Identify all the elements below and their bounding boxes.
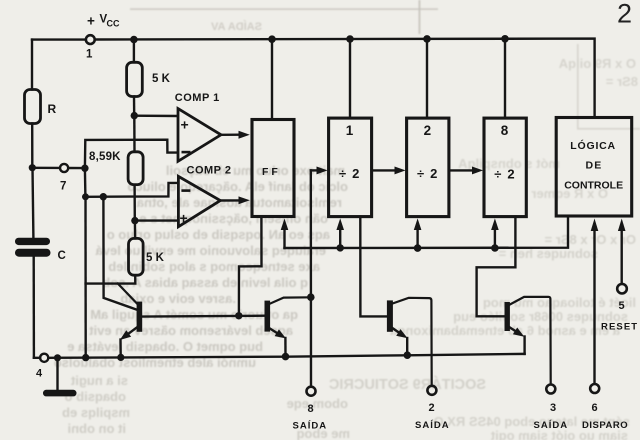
svg-text:6: 6 [592,402,598,414]
node D (comp2 ref) [131,217,138,224]
svg-text:olcic ob lanif elA .oãçareqo e: olcic ob lanif elA .oãçareqo e oliuco [127,179,348,194]
node Vcc junction [130,36,138,44]
resistor R [25,90,41,124]
label 2 [424,123,432,138]
svg-text:+: + [180,210,188,226]
svg-text:2: 2 [429,402,435,414]
terminal 1 [86,35,95,44]
label pin 6 [592,402,598,414]
wire comp1 output [221,131,250,139]
wire FF output to base line [239,217,262,316]
svg-text:CC: CC [107,19,120,29]
svg-text:it on obni: it on obni [68,421,126,436]
label 5K lower [146,252,165,264]
label FF [262,166,281,178]
wire disparo [591,219,599,384]
wire ground rail [34,354,525,358]
node A (timing node) [81,165,88,172]
svg-text:LÓGICA: LÓGICA [570,139,616,152]
wire node A down [84,168,87,196]
transistor Q2 [265,297,311,356]
label LOGICA [570,139,616,152]
label pin 3 [550,402,556,414]
label R [48,102,57,116]
wire node to terminal 7 [32,167,60,169]
node R/C junction [29,164,36,171]
wire block1 top [349,39,351,118]
svg-text:CONTROLE: CONTROLE [564,180,623,192]
svg-text:7: 7 [60,181,66,193]
op-amp COMP2 [178,176,220,226]
ground [43,358,77,397]
label C [58,250,66,262]
label pin 4 [36,368,43,380]
svg-text:2: 2 [617,0,632,29]
svg-text:FF: FF [262,166,281,178]
svg-text:8: 8 [501,123,509,138]
svg-text:SAÍDA AV: SAÍDA AV [210,20,262,33]
wire chain arrow block1 to block2 [372,167,406,175]
svg-text:O x R9 oilqA: O x R9 oilqA [558,56,636,71]
label SAIDA 2 [415,420,450,431]
svg-text:buq oqmet O .obaqsib levátsa e: buq oqmet O .obaqsib levátsa e [67,339,263,354]
wire node D to 5K lower [134,221,137,239]
svg-text:4: 4 [36,368,43,380]
wire block8 output to Q4 base [477,217,516,317]
svg-text:aqseb levársenom oãsrev an evi: aqseb levársenom oãsrev an evit [89,323,293,338]
svg-text:RESET: RESET [601,322,638,333]
wire top rail [32,39,595,118]
label pin 7 [60,181,66,193]
wire reset [618,219,626,284]
flip-flop FF [252,120,294,217]
node Q2 collector to output 8 [307,293,315,301]
logic block U1 [556,118,632,217]
divider block 8 [484,118,526,217]
divider block 1 [329,118,372,217]
svg-text:SAÍDA: SAÍDA [534,420,569,431]
wire block8 top [504,39,506,118]
label RESET [601,322,638,333]
svg-text:SOCITÁR9 SOTIUCRIC: SOCITÁR9 SOTIUCRIC [328,376,486,393]
label comp1 minus [182,151,191,154]
wire chain arrow block2 to block8 [449,167,483,175]
svg-text:÷2: ÷2 [339,166,365,181]
node E (lower timing tap) [82,193,89,200]
node FF to base line [235,312,242,319]
node Q2 emitter tap [282,353,290,361]
svg-text:R: R [48,102,57,116]
label comp2 minus [181,189,190,192]
node block1 top [346,35,354,43]
svg-text:mspilqs eb: mspilqs eb [62,405,130,420]
label 8 [501,123,509,138]
wire comp2 output [220,196,250,204]
svg-text:+: + [181,117,189,133]
label comp1 plus [181,117,189,133]
wire node E to ground rail [84,197,87,358]
wire FF top [271,39,273,119]
label SAIDA 3 [534,420,569,431]
terminal 4 [40,354,48,362]
wire Vcc to R [31,40,33,90]
svg-text:si a nugit: si a nugit [70,373,128,388]
wire block1 output to Q3 base [360,217,387,317]
svg-text:5 K: 5 K [152,73,171,85]
svg-text:COMP 1: COMP 1 [175,92,220,104]
wire chain arrow into block1 [311,167,328,175]
wire terminal 7 to node A [68,167,85,170]
label +Vcc [87,14,120,29]
svg-text:obom eqe: obom eqe [287,396,348,411]
svg-text:5: 5 [619,300,625,312]
node Q3 emitter tap [404,351,412,359]
label divide-by-2 (8) [494,166,520,181]
resistor 5K upper [127,62,143,96]
terminal 7 [60,164,68,172]
wire 5K lower to divider foot [86,275,136,283]
op-amp COMP1 [178,109,221,162]
wire C to ground rail [33,257,36,358]
svg-text:DISPARO: DISPARO [582,420,628,431]
node B (comp1 ref) [131,112,138,119]
wire block2 top [426,39,428,118]
svg-text:DE: DE [586,160,603,172]
label pin 2 [429,402,435,414]
wire FF reset riser [281,219,289,249]
label DISPARO [582,420,628,431]
svg-text:2: 2 [424,123,432,138]
svg-text:8,59K: 8,59K [89,151,121,163]
svg-text:5 K: 5 K [146,252,165,264]
wire node to capacitor C [31,168,34,238]
svg-text:1: 1 [346,123,354,138]
label COMP 1 [175,92,220,104]
node Q1 emitter tap [117,354,124,361]
label pin 5 [619,300,625,312]
node block8 top [501,35,509,43]
wire node D to comp2 plus [135,219,178,221]
label SAIDA 8 [293,421,328,432]
label DE [586,160,603,172]
node FF top [268,35,276,43]
wire 8,59K to node D [133,185,136,221]
resistor 5K lower [129,238,144,275]
label pin 1 [86,49,93,61]
label 5K upper [152,73,171,85]
label divide-by-2 (2) [417,166,443,181]
wire node B to 8,59K [133,116,136,152]
label CONTROLE [564,180,623,192]
divider block 2 [407,118,449,217]
svg-text:C: C [58,250,66,262]
wire block1 reset riser [336,218,344,248]
terminal 2 [427,386,436,395]
label 8,59K [89,151,121,163]
svg-text:SAÍDA: SAÍDA [293,421,328,432]
transistor Q3 [387,298,432,386]
node bus block1 [337,244,344,251]
svg-text:÷2: ÷2 [494,166,520,181]
transistor Q1 [118,284,142,358]
label COMP 2 [187,164,232,176]
wire reset bus [285,216,569,248]
label divide-by-2 (1) [339,166,365,181]
wire Q1/Q2 base line [142,315,264,318]
svg-text:axe setneqeomoq s aloq sobinil: axe setneqeomoq s aloq sobinileb [108,259,320,274]
node F (Q1 base tap) [100,193,107,200]
svg-text:8: 8 [308,403,314,415]
terminal 3 [546,385,555,394]
node left rail tap [82,354,89,361]
svg-text:8Sr =: 8Sr = [605,74,638,89]
node ground symbol tap [54,354,61,361]
node bus block8 [491,244,499,252]
node bus block2 [414,244,422,252]
terminal 6 [590,384,599,393]
label comp2 plus [180,210,188,226]
node block2 top [423,35,431,43]
wire 5K to node B [133,97,136,116]
transistor Q4 [505,297,551,385]
wire R to node7 [31,124,33,168]
label pin 8 [308,403,314,415]
svg-text:1: 1 [86,49,93,61]
label 1 [346,123,354,138]
wire timing loop to comp1 minus [85,140,178,168]
wire block8 reset riser [491,218,499,248]
terminal 8 [307,387,316,396]
capacitor C [15,238,51,257]
wire node B to comp1 plus [134,114,178,117]
svg-text:+: + [87,14,95,29]
wire block2 reset riser [414,218,422,248]
svg-text:oãn omsem ,oãçssinoqmet s e: oãn omsem ,oãçssinoqmet s e [139,211,328,226]
wire Vcc node to 5K upper [133,40,135,63]
wire node E to comp2 minus [86,183,179,197]
svg-text:COMP 2: COMP 2 [187,164,232,176]
svg-text:SAÍDA: SAÍDA [415,420,450,431]
figure number 2 [617,0,632,29]
resistor 8,59K [128,152,143,185]
wire node F to Q1 base [103,197,136,310]
wire output 8 line [310,170,313,386]
svg-text:÷2: ÷2 [417,166,443,181]
terminal 5 [617,284,627,294]
svg-text:3: 3 [550,402,556,414]
